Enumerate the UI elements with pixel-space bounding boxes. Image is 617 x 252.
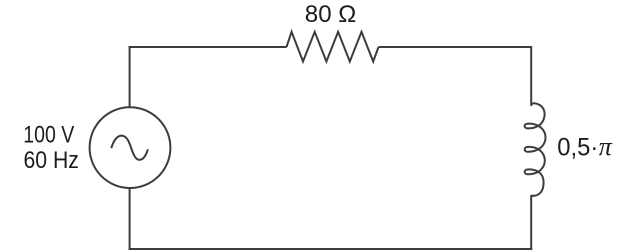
wire right vertical bottom (from inductor) bbox=[530, 195, 532, 250]
AC source V1 circle bbox=[90, 107, 171, 188]
inductor L (0,5 pi) coil bbox=[525, 103, 546, 196]
wire top-right horizontal bbox=[379, 46, 532, 48]
wire right vertical top (to inductor) bbox=[530, 46, 532, 105]
wire left vertical bottom (source bottom lead) bbox=[129, 188, 131, 250]
wire left vertical top (source top lead) bbox=[129, 46, 131, 107]
resistor R (80 ohm) zigzag bbox=[287, 32, 379, 62]
AC source sine wave bbox=[111, 136, 148, 160]
svg-text:60 Hz: 60 Hz bbox=[24, 147, 79, 174]
svg-text:80 Ω: 80 Ω bbox=[305, 1, 357, 28]
wire bottom horizontal bbox=[129, 248, 533, 250]
svg-text:0,5·: 0,5· bbox=[557, 133, 598, 161]
wire top-left horizontal bbox=[129, 46, 287, 48]
svg-text:100 V: 100 V bbox=[23, 122, 74, 149]
svg-text:π: π bbox=[599, 132, 613, 161]
